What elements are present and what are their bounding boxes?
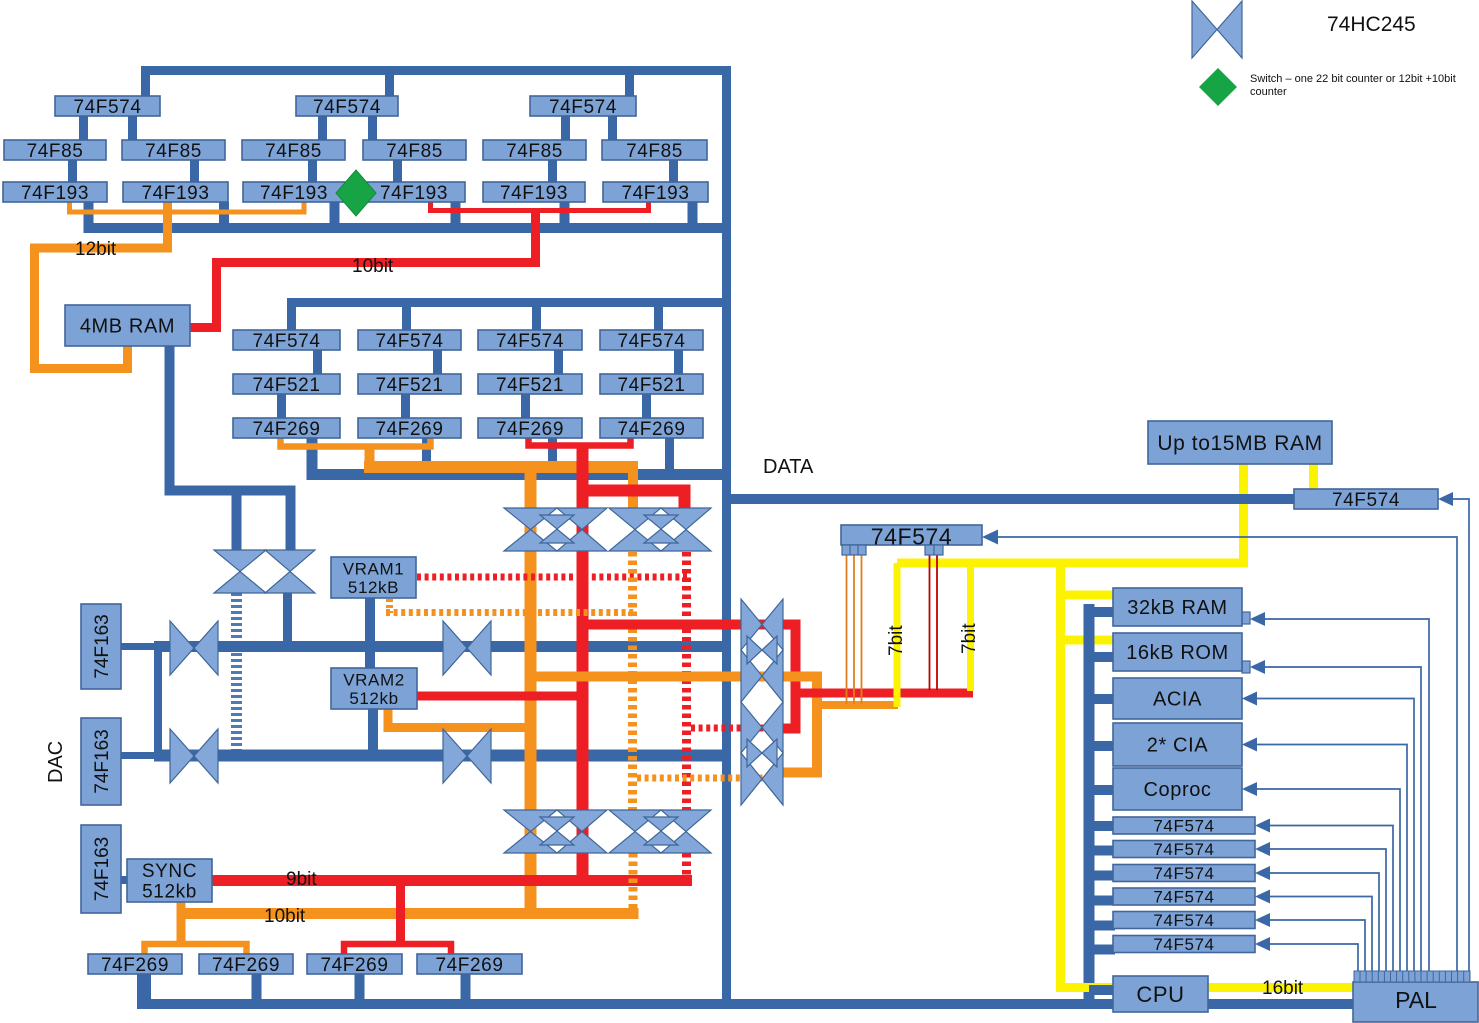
wire DATA horizontal bus: [731, 494, 1294, 504]
wire 74F269-b4 stub: [461, 974, 471, 999]
wire local bus to 74F574-r4: [1089, 896, 1115, 906]
transceiver 74HC245 B2 on DAC bus2: [443, 729, 491, 783]
svg-text:VRAM1: VRAM1: [343, 559, 405, 578]
chip 74F574 data latch: [841, 523, 982, 549]
wire 74F574-m3 to 74F521-m3: [554, 350, 563, 374]
wire ACIA select: [1242, 692, 1414, 972]
wire red 9bit: [212, 875, 692, 886]
wire orange bus main: [364, 461, 638, 473]
wire orange 74F269 tie: [281, 438, 431, 447]
wire yellow 15MB RAM address: [897, 464, 1244, 563]
chip 74F163 2: [81, 718, 121, 805]
wire 74F85-6 to 74F193-6: [669, 160, 678, 182]
wire orange bus to 7bit: [817, 701, 898, 709]
wire 74F193-4 stub: [451, 202, 461, 224]
chip 74F269 m1: [233, 418, 340, 440]
wire orange horizontal bus: [370, 446, 634, 508]
svg-text:74F269: 74F269: [496, 419, 564, 440]
wire 74F574-r1 select: [1255, 819, 1393, 972]
svg-text:74F574: 74F574: [549, 97, 617, 118]
wire red 74F193 tie top: [431, 202, 649, 211]
wire local bus to Coproc: [1089, 785, 1115, 795]
svg-text:74F163: 74F163: [92, 729, 113, 793]
chip VRAM1 512kB: [331, 557, 416, 598]
dotted red h: [417, 574, 688, 581]
tab 16kB ROM output: [1242, 661, 1250, 673]
wire yellow 7bit-2: [967, 563, 974, 691]
wire dotted red to 9bit: [682, 853, 691, 875]
wire 74F574-m2 to 74F521-m2: [433, 350, 442, 374]
wire orange 12bit to 4MB RAM: [35, 202, 168, 369]
wire 74F269-b2 stub: [252, 974, 262, 999]
wire middle cluster bus: [292, 303, 732, 331]
wire main vertical bus segment: [722, 66, 731, 1009]
wire orange transceiver loop: [535, 677, 817, 773]
chip 74F269 m4: [600, 418, 703, 440]
wire 74F193-5 stub: [560, 202, 570, 224]
wire 74F85-3 to 74F193-3: [308, 160, 317, 182]
wire feed to transceiver pair left: [232, 491, 242, 550]
svg-text:74F574: 74F574: [617, 331, 685, 352]
chip 74F574 m4: [600, 330, 703, 352]
wire 74F521-m1 to 74F269-m1: [277, 394, 286, 418]
svg-text:74HC245: 74HC245: [1327, 13, 1416, 36]
wire 74F574-3 drop: [625, 74, 634, 96]
wire thin orange bit0: [846, 555, 848, 704]
wire local bus to 32kB RAM: [1089, 607, 1115, 617]
svg-text:7bit: 7bit: [959, 623, 980, 654]
wire 74F574-1 to 74F85-2: [128, 116, 137, 140]
wire red bus to 7bit: [796, 689, 974, 698]
chip ACIA: [1113, 678, 1242, 719]
svg-text:74F574: 74F574: [375, 331, 443, 352]
wire local bus: [1084, 604, 1095, 999]
svg-text:74F193: 74F193: [500, 183, 568, 204]
svg-text:74F193: 74F193: [380, 183, 448, 204]
wire 74F269-m4 stub: [665, 438, 674, 469]
wire 74F574-m4 to 74F521-m4: [674, 350, 683, 374]
svg-text:74F269: 74F269: [617, 419, 685, 440]
wire red 10bit to 4MB RAM: [190, 210, 536, 328]
svg-text:9bit: 9bit: [286, 869, 317, 890]
wire 74F193-3 stub: [330, 202, 340, 224]
wire top address bus: [146, 71, 732, 97]
svg-text:CPU: CPU: [1136, 982, 1184, 1007]
svg-text:74F574: 74F574: [1153, 911, 1214, 930]
chip 74F85 1: [4, 140, 106, 162]
chip SYNC 512kb: [127, 859, 212, 903]
wire 16kB ROM select: [1250, 660, 1421, 971]
wire 32kB RAM select: [1250, 612, 1429, 971]
svg-text:Switch – one 22 bit counter or: Switch – one 22 bit counter or 12bit +10…: [1250, 73, 1456, 85]
wire local bus to 74F574-r5: [1089, 921, 1115, 931]
dotted orange h: [386, 609, 634, 616]
wire orange 74F193 tie top: [70, 202, 305, 212]
wire 74F193-6 stub: [688, 202, 698, 224]
wire 74F269-b3 stub: [355, 974, 365, 999]
svg-text:74F193: 74F193: [260, 183, 328, 204]
wire 74F85-4 to 74F193-4: [393, 160, 402, 182]
wire orange 10bit: [181, 908, 639, 919]
svg-text:74F193: 74F193: [21, 183, 89, 204]
wire 74F574-2 to 74F85-3: [318, 116, 327, 140]
svg-text:74F269: 74F269: [212, 955, 280, 976]
wire wide data bus under 74F269 row: [312, 438, 731, 475]
chip 74F269 m3: [478, 418, 582, 440]
wire DAC bus2: [154, 750, 731, 762]
wire local bus to 74F574-r3: [1089, 871, 1115, 881]
chip 74F193 2: [123, 182, 228, 204]
wire bus to 74F574-m2: [402, 306, 411, 330]
svg-text:74F193: 74F193: [621, 183, 689, 204]
wire DAC bus left vertical: [154, 641, 162, 761]
transceiver 74HC245 A1 on DAC bus1: [170, 621, 218, 675]
chip 74F269 b4: [417, 954, 522, 976]
wire local bus to CPU: [1089, 985, 1113, 995]
svg-text:74F574: 74F574: [252, 331, 320, 352]
chip 74F574 A1: [55, 96, 160, 118]
wire 74F193-2 stub: [219, 202, 229, 224]
wire 74F85-1 to 74F193-1: [68, 160, 77, 182]
wire 74F521-m3 to 74F269-m3: [521, 394, 530, 418]
transceiver stack middle: [741, 599, 783, 805]
svg-text:VRAM2: VRAM2: [343, 670, 405, 689]
wire 74F574-m1 to 74F521-m1: [313, 350, 322, 374]
wire red branch to transceiver B: [583, 491, 685, 509]
svg-text:74F193: 74F193: [141, 183, 209, 204]
red vram2: [417, 692, 581, 701]
svg-text:10bit: 10bit: [264, 906, 306, 927]
chip 74F574 r3: [1113, 864, 1255, 883]
svg-text:74F574: 74F574: [1153, 864, 1214, 883]
svg-text:512kb: 512kb: [349, 689, 398, 708]
wire 74F574-r5 select: [1255, 913, 1365, 971]
chip 74F269 b3: [307, 954, 402, 976]
wire local bus to 74F574-r6: [1089, 945, 1115, 955]
transceiver 74HC245 A2 on DAC bus1: [443, 621, 491, 675]
dotted red h2: [691, 725, 783, 732]
legend transceiver 74HC245 symbol: [1192, 1, 1242, 58]
wire bottom bus: [137, 999, 1353, 1009]
svg-text:74F85: 74F85: [145, 141, 202, 162]
chip 74F85 5: [483, 140, 586, 162]
chip CPU: [1113, 976, 1208, 1012]
chip 4MB RAM: [65, 305, 190, 346]
chip 74F269 b1: [88, 954, 182, 976]
wire 74F574-data select from PAL: [982, 530, 1457, 972]
wire red transceiver loop: [586, 625, 796, 729]
dotted orange h2: [637, 775, 783, 782]
transceiver group upper A: [504, 508, 607, 551]
svg-text:16bit: 16bit: [1262, 978, 1304, 999]
wire 74F521-m4 to 74F269-m4: [642, 394, 651, 418]
svg-text:DATA: DATA: [763, 456, 814, 478]
pin tab block right: [925, 545, 943, 555]
wire 2xCIA select: [1242, 738, 1407, 972]
wire DAC bus1: [154, 641, 731, 652]
svg-text:74F269: 74F269: [320, 955, 388, 976]
svg-text:74F269: 74F269: [435, 955, 503, 976]
wire thin orange bit1: [853, 555, 855, 704]
svg-text:74F163: 74F163: [92, 837, 113, 901]
wire red 74F269 tie: [529, 438, 631, 446]
chip 74F269 m2: [358, 418, 461, 440]
svg-text:512kB: 512kB: [348, 578, 399, 597]
chip 74F193 4: [363, 182, 465, 204]
wire 74F163-2 stub: [121, 752, 159, 759]
chip 74F269 b2: [199, 954, 293, 976]
svg-text:PAL: PAL: [1395, 987, 1437, 1013]
chip 16kB ROM: [1113, 633, 1242, 671]
chip 74F574 r2: [1113, 840, 1255, 859]
wire solid below transceiver: [283, 593, 292, 652]
svg-text:16kB ROM: 16kB ROM: [1126, 642, 1229, 664]
wire yellow ram stub: [1060, 591, 1114, 600]
wire bus to 74F574-m4: [654, 306, 663, 330]
wire 74F574-1 drop: [385, 74, 394, 96]
svg-text:12bit: 12bit: [75, 239, 117, 260]
svg-text:512kb: 512kb: [142, 882, 197, 903]
wire local bus to 74F574-r2: [1089, 846, 1115, 856]
wire 74F574-r4 select: [1255, 890, 1372, 972]
chip 74F163 3: [81, 825, 121, 913]
wire local bus to 74F574-r1: [1089, 821, 1115, 831]
wire red vert: [577, 445, 589, 886]
wire dashed below transceiver: [231, 593, 242, 752]
svg-text:74F85: 74F85: [265, 141, 322, 162]
wire 74F163-1 stub: [121, 643, 159, 650]
wire orange VRAM2: [388, 709, 530, 728]
wire VRAM1 bottom stub: [365, 598, 375, 646]
chip 74F85 4: [363, 140, 466, 162]
wire yellow 7bit-1: [894, 563, 901, 707]
svg-text:74F574: 74F574: [73, 97, 141, 118]
svg-text:74F574: 74F574: [313, 97, 381, 118]
chip 74F193 5: [483, 182, 585, 204]
chip 2x CIA: [1113, 723, 1242, 766]
wire VRAM2 top stub: [365, 647, 375, 668]
chip 74F85 2: [122, 140, 225, 162]
wire 74F574-r2 select: [1255, 842, 1386, 971]
wire yellow CPU address vertical: [1061, 563, 1354, 988]
chip 74F574 r5: [1113, 911, 1255, 930]
wire red 74F269 bottom tie: [344, 944, 451, 954]
svg-text:74F85: 74F85: [27, 141, 84, 162]
tab 32kB RAM output: [1242, 612, 1250, 624]
wire 74F574-1 to 74F85-1: [79, 116, 88, 140]
wire dotted orange to 10bit: [629, 853, 638, 908]
wire 74F85-2 to 74F193-2: [190, 160, 199, 182]
red 9bit drop: [396, 886, 405, 946]
transceiver group upper B: [609, 508, 711, 551]
chip PAL: [1353, 971, 1478, 1022]
wire local bus to 2xCIA: [1089, 741, 1115, 751]
chip 74F521 m3: [478, 374, 582, 396]
wire thin orange bit2: [861, 555, 863, 704]
chip 74F193 1: [3, 182, 107, 204]
svg-text:SYNC: SYNC: [142, 861, 197, 882]
svg-text:Up to15MB RAM: Up to15MB RAM: [1157, 432, 1322, 455]
svg-text:7bit: 7bit: [886, 625, 907, 656]
wire 74F163-3 to SYNC stub: [121, 876, 127, 884]
wire local bus to 16kB ROM: [1089, 652, 1115, 662]
chip 74F574 r1: [1113, 817, 1255, 836]
svg-text:74F269: 74F269: [375, 419, 443, 440]
svg-text:74F521: 74F521: [252, 375, 320, 396]
chip 74F574 m3: [478, 330, 582, 352]
svg-text:ACIA: ACIA: [1153, 689, 1202, 711]
pin tab block left: [842, 545, 866, 555]
wire bus to 74F574-m3: [532, 306, 541, 330]
chip 74F521 m4: [600, 374, 703, 396]
orange sync drop: [177, 902, 186, 946]
svg-text:74F521: 74F521: [496, 375, 564, 396]
wire 74F574-15MB select from PAL: [1438, 492, 1469, 971]
wire local bus to ACIA: [1089, 694, 1115, 704]
svg-text:74F85: 74F85: [386, 141, 443, 162]
wire 74F574-2 to 74F85-4: [368, 116, 377, 140]
chip VRAM2 512kb: [331, 668, 417, 709]
wire thin red bit0: [929, 555, 931, 690]
chip 74F163 1: [81, 604, 121, 689]
wire 74F574-r6 select: [1255, 937, 1358, 971]
svg-text:74F574: 74F574: [1153, 840, 1214, 859]
chip 74F521 m1: [233, 374, 340, 396]
switch diamond: [336, 170, 376, 216]
chip 74F193 3: [243, 182, 345, 204]
chip 74F85 3: [242, 140, 345, 162]
transceiver group lower E: [504, 810, 607, 853]
svg-text:74F574: 74F574: [1153, 935, 1214, 954]
chip 74F574 r6: [1113, 935, 1255, 954]
legend switch diamond: [1199, 68, 1237, 106]
wire 74F269-m3 stub: [548, 438, 557, 469]
wire orange vert: [525, 471, 537, 913]
chip 74F193 6: [603, 182, 708, 204]
svg-text:74F269: 74F269: [101, 955, 169, 976]
wire yellow rom stub: [1060, 636, 1114, 645]
chip 74F574 r4: [1113, 888, 1255, 907]
wire 74F85-5 to 74F193-5: [548, 160, 557, 182]
wire 74F269-m2 stub: [422, 438, 431, 469]
chip 74F85 6: [602, 140, 707, 162]
chip 74F574 A2: [296, 96, 398, 118]
transceiver 74HC245 B1 on DAC bus2: [170, 729, 218, 783]
dotted orange v: [628, 552, 637, 812]
chip Coproc: [1113, 768, 1242, 810]
chip 74F574 A3: [530, 96, 636, 118]
svg-text:2* CIA: 2* CIA: [1147, 735, 1208, 757]
wire orange 74F269 bottom tie: [145, 944, 247, 954]
svg-text:74F574: 74F574: [1153, 817, 1214, 836]
svg-text:74F574: 74F574: [1153, 888, 1214, 907]
svg-text:74F574: 74F574: [1332, 490, 1400, 511]
dotted red v: [682, 552, 691, 812]
transceiver pair left (to DAC): [214, 550, 315, 593]
wire yellow stub: [1309, 464, 1318, 490]
svg-text:74F574: 74F574: [496, 331, 564, 352]
chip 32kB RAM: [1113, 588, 1242, 626]
svg-text:74F521: 74F521: [375, 375, 443, 396]
svg-text:74F269: 74F269: [252, 419, 320, 440]
svg-text:Coproc: Coproc: [1143, 779, 1211, 801]
svg-text:4MB RAM: 4MB RAM: [80, 316, 175, 338]
svg-text:74F163: 74F163: [92, 614, 113, 678]
dotted orange vram1 stub: [386, 599, 393, 613]
svg-text:32kB RAM: 32kB RAM: [1127, 597, 1227, 619]
transceiver group lower F: [609, 810, 711, 853]
svg-text:counter: counter: [1250, 86, 1287, 98]
wire Coproc select: [1242, 782, 1400, 971]
chip Up to15MB RAM: [1148, 421, 1332, 464]
chip 74F574 15MB latch: [1294, 489, 1438, 511]
wire bus below 74F193 row: [89, 202, 732, 228]
svg-text:74F85: 74F85: [506, 141, 563, 162]
wire 74F574-r3 select: [1255, 866, 1379, 971]
wire 74F574-3 to 74F85-5: [561, 116, 570, 140]
wire 74F574-3 to 74F85-6: [608, 116, 617, 140]
chip 74F521 m2: [358, 374, 461, 396]
svg-text:DAC: DAC: [45, 741, 67, 783]
chip 74F574 m2: [358, 330, 461, 352]
chip 74F574 m1: [233, 330, 340, 352]
wire 74F521-m2 to 74F269-m2: [401, 394, 410, 418]
wire VRAM2 bottom stub: [368, 709, 378, 752]
svg-text:10bit: 10bit: [352, 256, 394, 277]
svg-text:74F521: 74F521: [617, 375, 685, 396]
svg-text:74F85: 74F85: [626, 141, 683, 162]
wire 4MB RAM down bus: [170, 346, 291, 550]
wire thin red bit1: [936, 555, 938, 690]
